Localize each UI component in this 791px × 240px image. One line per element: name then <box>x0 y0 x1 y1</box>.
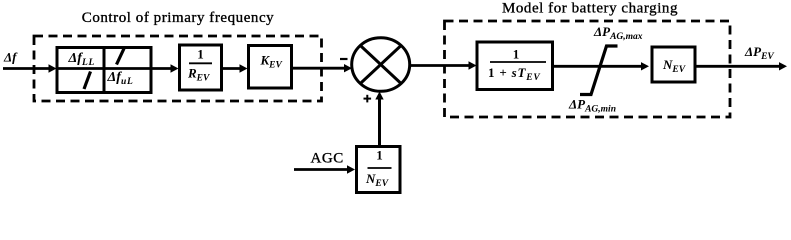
block 1/(1+sTEV) <box>477 42 553 90</box>
dashed box: control of primary frequency <box>34 36 322 101</box>
svg-text:REV: REV <box>187 66 210 84</box>
svg-text:1: 1 <box>513 46 520 61</box>
minus sign <box>340 58 348 60</box>
svg-text:NEV: NEV <box>662 57 686 75</box>
wire: 1/REV to KEV <box>223 67 241 70</box>
wire: 1/(1+sTEV) to NEV through limiter <box>553 65 643 68</box>
dead-band block box <box>57 48 151 93</box>
wire: output ΔPEV <box>695 65 780 68</box>
dead-band slope lower-left <box>84 72 91 90</box>
block 1/REV <box>180 45 222 90</box>
svg-text:ΔPEV: ΔPEV <box>744 44 774 62</box>
summing junction circle <box>352 38 410 92</box>
block KEV <box>249 46 292 89</box>
plus sign <box>364 98 372 100</box>
block NEV <box>652 47 695 82</box>
dead-band slope upper-right <box>117 49 125 65</box>
svg-text:NEV: NEV <box>365 171 389 189</box>
wire: AGC input <box>294 168 349 171</box>
wire: KEV to summing junction <box>292 67 345 70</box>
svg-text:KEV: KEV <box>260 53 283 71</box>
svg-text:AGC: AGC <box>311 151 344 167</box>
wire: 1/NEV up to summing junction <box>378 97 381 147</box>
dashed box: model for battery charging <box>445 21 731 117</box>
svg-text:Control of primary frequency: Control of primary frequency <box>82 10 274 26</box>
svg-text:ΔfuL: ΔfuL <box>107 70 134 87</box>
svg-text:ΔfLL: ΔfLL <box>68 51 96 68</box>
svg-text:ΔPAG,min: ΔPAG,min <box>568 97 616 115</box>
svg-text:1: 1 <box>197 46 204 61</box>
limiter (saturation) symbol <box>580 46 618 95</box>
svg-text:Model for battery charging: Model for battery charging <box>502 1 678 17</box>
wire: through dead-band block <box>57 67 172 70</box>
svg-text:1: 1 <box>376 148 383 163</box>
svg-text:1 + sTEV: 1 + sTEV <box>488 65 541 83</box>
block 1/NEV <box>357 147 401 193</box>
svg-text:ΔPAG,max: ΔPAG,max <box>593 24 643 42</box>
wire: Δf input <box>3 67 50 70</box>
wire: dead-band to 1/REV <box>171 64 179 72</box>
svg-text:Δf: Δf <box>3 50 18 65</box>
wire: summing junction to 1/(1+sTEV) <box>410 64 470 67</box>
